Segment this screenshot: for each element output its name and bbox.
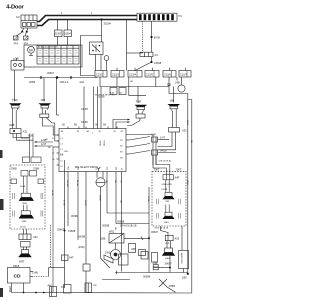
svg-text:1B0: 1B0 <box>182 276 187 280</box>
svg-text:7/4: 7/4 <box>178 14 182 18</box>
svg-text:A32: A32 <box>33 235 38 239</box>
svg-text:3/5B: 3/5B <box>100 237 106 241</box>
svg-text:C15/5: C15/5 <box>146 73 153 77</box>
svg-text:B1B: B1B <box>166 243 170 245</box>
svg-text:TW9: TW9 <box>136 100 142 104</box>
svg-text:A4: A4 <box>155 53 159 57</box>
svg-text:30607: 30607 <box>57 228 65 232</box>
svg-text:3B-5B: 3B-5B <box>84 200 86 206</box>
svg-text:31504: 31504 <box>64 34 71 36</box>
svg-text:BL-SB: BL-SB <box>76 180 78 186</box>
svg-text:5B 1B: 5B 1B <box>20 227 26 229</box>
svg-text:4TA: 4TA <box>14 42 19 46</box>
svg-text:30/98: 30/98 <box>71 214 78 218</box>
svg-text:1B1B: 1B1B <box>13 264 20 268</box>
svg-text:4-Door: 4-Door <box>6 5 24 11</box>
svg-text:AMPLIFIER: AMPLIFIER <box>180 253 183 264</box>
svg-text:3/8: 3/8 <box>15 57 19 61</box>
svg-text:04/1B: 04/1B <box>162 189 168 191</box>
svg-text:706B: 706B <box>33 167 39 171</box>
svg-text:MIL SILENT DSPLY: MIL SILENT DSPLY <box>75 165 98 169</box>
svg-text:16B8: 16B8 <box>165 258 171 260</box>
svg-text:1/2: 1/2 <box>16 15 20 19</box>
svg-text:A1P: A1P <box>151 133 156 137</box>
svg-text:1/8 M 5/1B 1B: 1/8 M 5/1B 1B <box>120 224 137 228</box>
svg-text:VO: VO <box>120 180 122 183</box>
svg-text:30-5B: 30-5B <box>147 196 149 202</box>
svg-text:24A: 24A <box>80 80 85 84</box>
svg-text:31508: 31508 <box>154 61 162 65</box>
svg-text:3B OF OR HB OF W5: 3B OF OR HB OF W5 <box>95 95 115 97</box>
svg-text:C15/3: C15/3 <box>112 73 119 77</box>
svg-text:A4T: A4T <box>69 256 74 260</box>
svg-text:M: M <box>29 47 32 52</box>
svg-text:BY/B: BY/B <box>154 35 160 39</box>
svg-text:U5B 04/18: U5B 04/18 <box>162 184 173 186</box>
svg-text:16B3: 16B3 <box>22 221 28 223</box>
svg-text:1W5: 1W5 <box>105 251 111 255</box>
svg-text:706B: 706B <box>11 167 17 171</box>
svg-text:A33: A33 <box>175 237 180 241</box>
svg-text:(24D): (24D) <box>78 245 85 249</box>
svg-text:24B: 24B <box>175 81 180 85</box>
svg-text:30-5B: 30-5B <box>99 141 101 147</box>
svg-text:16B: 16B <box>41 98 46 102</box>
svg-text:5B M 1B 5B 1B: 5B M 1B 5B 1B <box>155 228 169 230</box>
svg-text:58-5B: 58-5B <box>103 141 105 147</box>
svg-text:4TBB: 4TBB <box>169 284 176 288</box>
svg-text:04/18: 04/18 <box>160 149 167 153</box>
svg-text:GN-B: GN-B <box>186 120 188 126</box>
svg-text:16B: 16B <box>170 99 175 103</box>
svg-text:W52: W52 <box>109 230 115 234</box>
svg-text:GN-SB: GN-SB <box>66 180 68 187</box>
svg-text:A4T: A4T <box>61 285 66 288</box>
svg-text:A4B: A4B <box>48 284 53 287</box>
svg-text:4MB: 4MB <box>9 123 15 127</box>
svg-text:U/B: U/B <box>64 151 68 153</box>
svg-text:30598: 30598 <box>143 275 151 279</box>
svg-text:1TB: 1TB <box>93 285 98 287</box>
svg-text:30607: 30607 <box>47 71 55 75</box>
svg-text:A1B: A1B <box>28 134 33 138</box>
svg-text:C15/2: C15/2 <box>96 73 103 77</box>
svg-text:GN-B: GN-B <box>186 180 188 186</box>
svg-text:31504: 31504 <box>104 22 112 26</box>
svg-text:4TA: 4TA <box>24 42 29 46</box>
svg-text:304B: 304B <box>29 80 35 84</box>
svg-text:A6 B2 C4 D1 E3 F5 G7: A6 B2 C4 D1 E3 F5 G7 <box>38 46 58 49</box>
svg-text:30/4B: 30/4B <box>20 186 26 188</box>
svg-text:C15/7: C15/7 <box>180 73 187 77</box>
svg-text:3T5B: 3T5B <box>8 286 12 292</box>
svg-text:3A/0B: 3A/0B <box>78 235 85 239</box>
svg-text:706T: 706T <box>154 167 160 171</box>
svg-text:74W5: 74W5 <box>22 203 28 205</box>
svg-text:1/4T: 1/4T <box>160 136 166 140</box>
svg-text:24-58: 24-58 <box>81 107 88 111</box>
svg-text:04-5B: 04-5B <box>51 190 53 196</box>
svg-text:W5T: W5T <box>19 260 25 264</box>
svg-text:1/4T: 1/4T <box>41 142 47 146</box>
svg-text:30598: 30598 <box>117 220 125 224</box>
svg-text:WB: WB <box>166 201 170 203</box>
svg-text:31503: 31503 <box>55 34 62 36</box>
svg-text:A5P: A5P <box>131 247 136 251</box>
svg-text:10/14.2: 10/14.2 <box>60 80 69 84</box>
svg-text:4T-5B: 4T-5B <box>63 200 65 206</box>
svg-text:31508: 31508 <box>68 229 76 233</box>
svg-text:A4B: A4B <box>153 261 158 265</box>
svg-text:4/B: 4/B <box>60 154 64 156</box>
svg-text:C15/4: C15/4 <box>129 73 136 77</box>
svg-text:30607: 30607 <box>165 261 173 265</box>
svg-text:TW9: TW9 <box>12 98 18 102</box>
svg-text:30598: 30598 <box>102 224 110 228</box>
svg-text:U/B 04/18: U/B 04/18 <box>159 161 170 163</box>
svg-text:1B-5B: 1B-5B <box>99 195 101 201</box>
svg-text:CD: CD <box>14 274 22 280</box>
svg-text:C15/6: C15/6 <box>164 73 171 77</box>
svg-text:A33: A33 <box>182 129 187 133</box>
svg-text:30607: 30607 <box>151 230 159 234</box>
svg-text:A32: A32 <box>23 130 28 134</box>
svg-text:C/4B: C/4B <box>32 271 38 275</box>
svg-text:16B3: 16B3 <box>164 222 170 224</box>
svg-text:04-58: 04-58 <box>81 120 88 124</box>
svg-text:706T: 706T <box>176 167 182 171</box>
svg-text:A4P: A4P <box>175 176 180 180</box>
